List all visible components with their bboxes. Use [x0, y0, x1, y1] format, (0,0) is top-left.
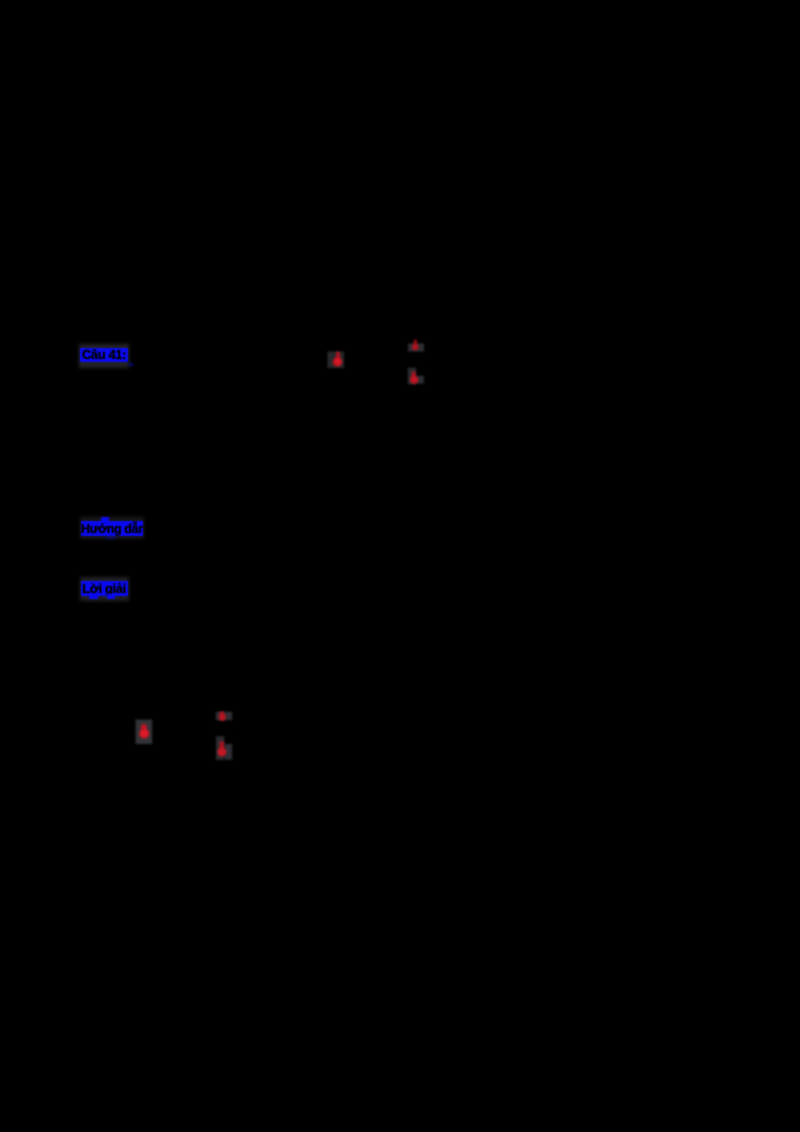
halo box around highlight 1 — [79, 344, 129, 368]
faint blue smudge below bar 2 — [106, 536, 116, 539]
red O atom E stem — [220, 712, 224, 717]
red O atom D head — [141, 724, 147, 730]
red O atom A body — [333, 357, 342, 366]
blue highlight bar 3 with text "Loi giai" — [81, 581, 128, 596]
red O atom B stem — [414, 340, 417, 345]
gray L-box behind O atom C (right) — [416, 376, 424, 384]
red O atom C body — [410, 376, 418, 384]
gray box behind O atom A — [328, 352, 345, 369]
gray L-box behind O atom F (left tall) — [216, 736, 224, 760]
blue highlight bar 1 with text "Câu 41:" — [80, 348, 128, 362]
gray box behind O atom D — [136, 720, 153, 744]
red O atom D body — [139, 729, 149, 739]
red O atom F stem — [220, 742, 225, 750]
blue accent poke above bar 2 — [101, 517, 109, 523]
red O atom B body — [412, 344, 419, 351]
blue descender pokes below bar 3 — [89, 594, 98, 599]
gray box behind O atom B — [408, 344, 424, 352]
blue smudge right of bar 1 — [129, 363, 133, 366]
gray box behind O atom E — [216, 712, 232, 720]
halo box around highlight 2 — [80, 517, 144, 539]
red O atom A stem — [336, 352, 340, 360]
halo box around highlight 3 — [80, 577, 129, 601]
red O atom E body — [219, 714, 226, 721]
gray L-box behind O atom F (right) — [224, 744, 232, 760]
red O atom F body — [218, 748, 227, 757]
blue highlight bar 2 with text "Huong dan:" — [81, 521, 143, 537]
red O atom C stem — [412, 372, 416, 380]
gray L-box behind O atom C (left) — [408, 368, 416, 385]
